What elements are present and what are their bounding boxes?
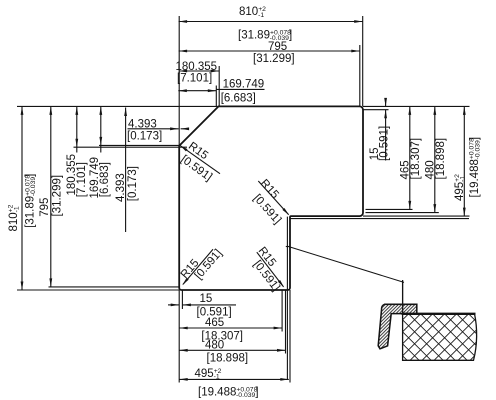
svg-text:[31.299]: [31.299] [253,53,295,65]
svg-text:[0.173]: [0.173] [127,131,162,143]
svg-text:795: 795 [268,41,287,53]
svg-text:4.393: 4.393 [115,173,127,202]
svg-text:810+2-1: 810+2-1 [8,204,21,231]
svg-text:[18.898]: [18.898] [207,353,249,365]
svg-text:[19.488+0.078-0.039]: [19.488+0.078-0.039] [469,137,482,198]
svg-text:180.355: 180.355 [176,61,218,73]
svg-text:810+2-1: 810+2-1 [239,6,266,19]
svg-text:[7.101]: [7.101] [177,73,212,85]
svg-text:495+2-1: 495+2-1 [195,368,222,381]
svg-text:4.393: 4.393 [128,118,157,130]
svg-text:[0.591]: [0.591] [379,126,391,161]
svg-text:[6.683]: [6.683] [99,162,111,197]
svg-text:15: 15 [200,293,213,305]
svg-text:495+2-1: 495+2-1 [454,174,467,201]
svg-text:465: 465 [205,317,224,329]
svg-text:480: 480 [205,340,224,352]
svg-text:[0.173]: [0.173] [127,166,139,201]
svg-text:[31.89+0.078-0.039]: [31.89+0.078-0.039] [24,174,37,228]
svg-text:169.749: 169.749 [223,79,265,91]
svg-text:[7.101]: [7.101] [76,162,88,197]
svg-text:[18.898]: [18.898] [435,138,447,180]
svg-text:[31.299]: [31.299] [52,175,64,217]
svg-text:[31.89+0.078-0.039]: [31.89+0.078-0.039] [238,29,292,42]
svg-text:795: 795 [39,198,51,217]
svg-text:[6.683]: [6.683] [221,93,256,105]
svg-text:[19.488+0.078-0.039]: [19.488+0.078-0.039] [198,386,259,399]
svg-text:[18.307]: [18.307] [410,138,422,180]
